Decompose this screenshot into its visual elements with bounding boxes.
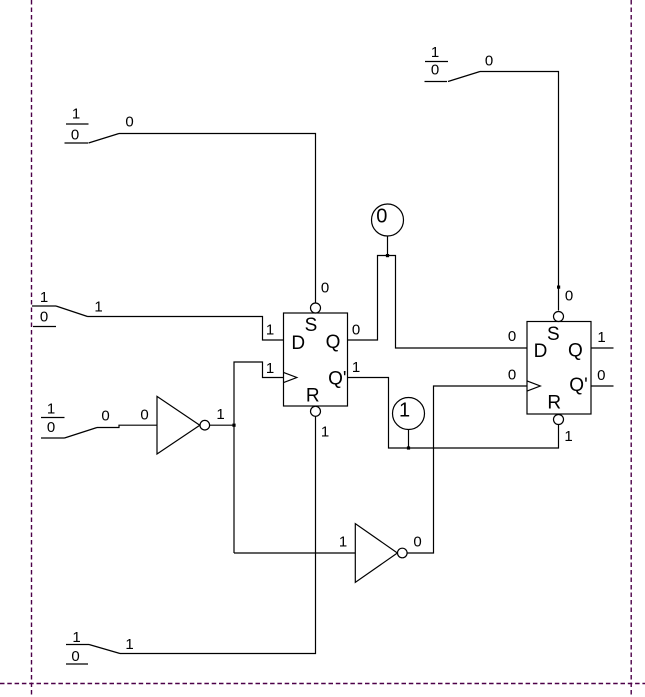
page border left (31, 0, 33, 697)
svg-text:1: 1 (266, 321, 274, 338)
svg-text:0: 0 (101, 407, 109, 424)
wire SW1 to U1 S (119, 134, 316, 303)
svg-text:R: R (306, 385, 320, 406)
svg-text:0: 0 (71, 126, 79, 143)
D flip-flop U1 (284, 313, 348, 406)
svg-text:0: 0 (352, 321, 360, 338)
wire U1 Q to U2 D (348, 256, 528, 349)
probe P1 (reads 0) (372, 204, 404, 236)
svg-text:R: R (547, 392, 561, 413)
svg-text:0: 0 (140, 406, 148, 423)
svg-text:Q: Q (326, 332, 341, 353)
switch SW2 (left, output 1) (32, 306, 88, 327)
switch SW1 (upper left, output 0) (65, 124, 120, 143)
wire U1 Q' to U2 R (348, 378, 559, 449)
U1 R bubble (311, 406, 321, 416)
junction dot on U2 S wire (557, 286, 560, 289)
probe P2 (reads 1) (393, 398, 425, 430)
svg-text:1: 1 (399, 400, 410, 422)
svg-text:1: 1 (339, 533, 347, 550)
svg-text:S: S (547, 324, 560, 345)
svg-text:0: 0 (125, 113, 133, 130)
wire SW5 to U2 S (480, 72, 559, 311)
wire clock node to U1 clock (234, 362, 284, 553)
junction dot probe P1 (386, 254, 389, 257)
switch SW3 (left, output 0) (41, 418, 97, 439)
page border bottom (0, 683, 645, 685)
junction dot at clock node (232, 424, 235, 427)
svg-text:Q': Q' (328, 369, 346, 390)
U2 S bubble (554, 312, 564, 322)
svg-text:0: 0 (40, 308, 48, 325)
svg-text:0: 0 (485, 52, 493, 69)
svg-text:0: 0 (376, 206, 387, 228)
svg-text:Q': Q' (569, 375, 587, 396)
wire U3 output to clock node (210, 424, 234, 426)
switch SW5 (top, output 0) (425, 62, 481, 82)
svg-text:D: D (291, 333, 305, 354)
svg-text:1: 1 (266, 360, 274, 377)
svg-text:1: 1 (431, 44, 439, 61)
svg-text:1: 1 (94, 298, 102, 315)
inverter U3 (157, 396, 210, 454)
U2 R bubble (554, 415, 564, 425)
svg-text:0: 0 (508, 366, 516, 383)
switch SW4 (bottom, output 1) (66, 645, 120, 665)
svg-text:0: 0 (321, 279, 329, 296)
svg-text:Q: Q (568, 341, 583, 362)
wire SW2 to U1 D (88, 317, 284, 341)
svg-text:0: 0 (413, 533, 421, 550)
svg-text:0: 0 (597, 367, 605, 384)
wire U2 Q output (591, 347, 614, 349)
svg-text:1: 1 (597, 329, 605, 346)
wire clock node to inverter U4 input (234, 552, 355, 554)
svg-text:1: 1 (72, 105, 80, 122)
svg-text:1: 1 (125, 636, 133, 653)
page border right (630, 0, 632, 697)
wire probe P1 stub (387, 236, 389, 256)
svg-text:1: 1 (216, 406, 224, 423)
svg-text:0: 0 (71, 648, 79, 665)
svg-text:1: 1 (321, 423, 329, 440)
junction dot probe P2 (407, 446, 410, 449)
wire U4 output to U2 clock (407, 386, 527, 553)
svg-text:1: 1 (47, 400, 55, 417)
svg-text:0: 0 (431, 61, 439, 78)
wire SW3 to inverter U3 input (97, 425, 157, 427)
svg-text:1: 1 (564, 428, 572, 445)
wire probe P2 stub (408, 430, 410, 449)
wire U2 Q' output (591, 385, 614, 387)
svg-text:1: 1 (40, 289, 48, 306)
D flip-flop U2 (527, 322, 591, 415)
svg-text:D: D (534, 341, 548, 362)
inverter U4 (355, 524, 407, 583)
svg-text:1: 1 (72, 629, 80, 646)
svg-text:0: 0 (47, 419, 55, 436)
svg-text:0: 0 (565, 287, 573, 304)
svg-text:S: S (305, 315, 318, 336)
U1 S bubble (311, 303, 321, 313)
svg-text:1: 1 (352, 359, 360, 376)
wire SW4 to U1 R (120, 416, 316, 653)
svg-text:0: 0 (508, 328, 516, 345)
